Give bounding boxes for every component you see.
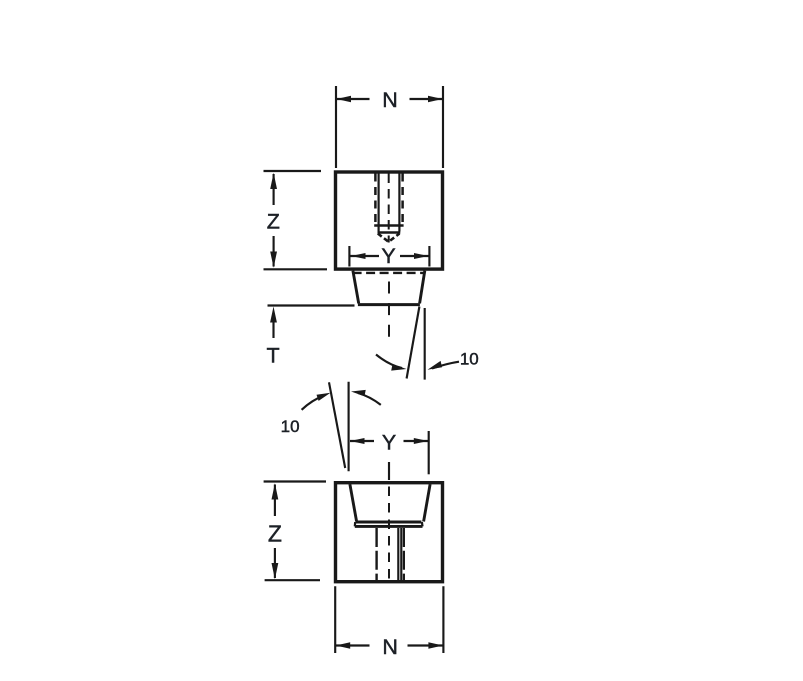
svg-text:Z: Z	[267, 209, 280, 233]
svg-text:T: T	[267, 344, 280, 368]
svg-text:Z: Z	[268, 520, 282, 546]
svg-text:10: 10	[460, 350, 479, 369]
svg-text:Y: Y	[382, 430, 396, 454]
svg-text:Y: Y	[381, 244, 395, 268]
svg-text:N: N	[382, 635, 398, 659]
svg-text:10: 10	[281, 417, 300, 436]
svg-text:N: N	[382, 88, 398, 112]
